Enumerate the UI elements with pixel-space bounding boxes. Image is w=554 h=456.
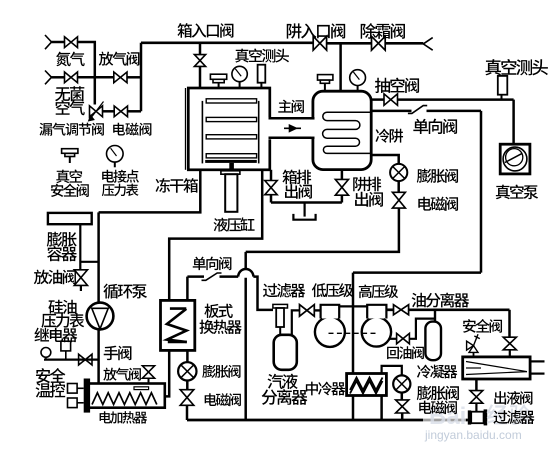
label 膨胀	[47, 232, 77, 247]
label 循环泵	[103, 284, 147, 299]
wire to solenoid	[397, 181, 400, 192]
label 漏气调节阀	[39, 123, 103, 136]
solenoid 电磁阀 (trap)	[392, 192, 405, 208]
expansion valve 膨胀阀 (mid)	[178, 362, 196, 380]
label 手阀	[104, 346, 132, 361]
label 回油阀	[387, 346, 424, 359]
wire box drain	[270, 170, 273, 203]
label 冷凝器	[417, 365, 457, 379]
label 过滤器	[493, 410, 534, 424]
check valve 单向阀 (mid)	[202, 273, 222, 280]
exchanger internals	[167, 309, 187, 342]
label 安全阀	[463, 319, 502, 333]
label 板式	[204, 304, 232, 318]
valve 箱排出阀	[265, 181, 277, 195]
valve suction stop	[300, 305, 315, 317]
sterile air inlet arrow	[45, 71, 52, 85]
vacuum probe right 真空测头	[498, 76, 508, 100]
shelf 4	[206, 154, 256, 158]
label 安全阀	[51, 184, 89, 197]
label 出阀	[355, 192, 383, 207]
wire air line	[52, 76, 65, 79]
label 箱入口阀	[177, 23, 233, 38]
duct lines into trap	[310, 118, 315, 138]
valve 回油阀	[397, 333, 410, 343]
valve 放气阀 (heater vent)	[142, 366, 154, 384]
wire riser x245.7	[244, 252, 247, 420]
LP compressor 低压级	[315, 304, 345, 347]
label 无菌	[55, 86, 84, 101]
intercooler zigzag	[350, 378, 383, 394]
label 除霜阀	[361, 23, 405, 39]
label 电接点	[102, 170, 139, 183]
oil separator 油分离器	[425, 322, 441, 361]
label 冻干箱	[156, 178, 198, 193]
wire vent valve to riser x141	[127, 76, 141, 79]
label 放气阀	[103, 368, 141, 381]
liquid filter 过滤器 (bottom right)	[468, 409, 487, 425]
wire main top line 箱入口-阱入口-除霜	[141, 41, 423, 44]
label 分离器	[262, 389, 308, 405]
label 冷阱	[375, 129, 403, 143]
main valve duct 主阀	[269, 118, 315, 138]
hydraulic cylinder flange	[221, 171, 240, 174]
label 继电器	[34, 328, 77, 343]
valve HP discharge	[394, 305, 409, 315]
label 真空泵	[496, 185, 538, 200]
label 单向阀	[193, 257, 232, 271]
label 主阀	[278, 100, 304, 113]
valve 阱排出阀	[335, 179, 348, 195]
valve 手阀	[79, 354, 92, 365]
outlet arrow (defrost line)	[423, 38, 432, 51]
wire to LP compressor	[314, 309, 320, 311]
condenser 冷凝器	[463, 357, 530, 379]
valve nitrogen shutoff	[65, 37, 78, 48]
wire trap coil outlet to expansion	[371, 155, 399, 164]
wire to mid solenoid	[186, 381, 189, 390]
vapor-liquid separator 汽液分离器	[274, 335, 297, 370]
electric heater 电加热器	[85, 384, 165, 408]
label 汽液	[268, 374, 298, 389]
label 换热器	[199, 320, 241, 334]
compressor dashed axis	[329, 332, 377, 334]
wire box return to exchanger	[169, 170, 262, 300]
label 膨胀阀	[417, 386, 459, 401]
label 放油阀	[34, 270, 76, 285]
wire to bottom header	[186, 405, 189, 420]
box pressure gauge	[232, 66, 247, 88]
svg-text:jingyan.baidu.com: jingyan.baidu.com	[424, 428, 522, 442]
wire air to vent valve	[78, 76, 114, 79]
wire separator outlet	[292, 310, 300, 334]
label 电磁阀	[113, 123, 151, 136]
wire riser x141	[140, 43, 143, 112]
wire riser x353 (intercooler left)	[352, 273, 355, 420]
watermark blob	[423, 399, 466, 425]
expansion valve 膨胀阀 (right)	[393, 375, 410, 392]
wire discharge down to condenser	[508, 310, 511, 337]
valve 抽空阀	[384, 94, 398, 105]
trap duct opening white-out	[311, 118, 317, 139]
expansion valve 膨胀阀 (trap)	[390, 164, 407, 181]
wire right down-leg x481	[480, 111, 483, 273]
label 真空	[56, 169, 82, 183]
safety thermostat sensors 安全温控	[68, 384, 84, 408]
box vacuum probe 真空测头	[258, 65, 266, 88]
label 箱排	[282, 170, 311, 185]
wire LP to HP top line	[339, 305, 367, 307]
label 压力表	[102, 184, 139, 197]
wire intercooler right leg	[382, 366, 402, 420]
plate heat exchanger 板式换热器	[161, 300, 195, 350]
solenoid 电磁阀 (mid)	[180, 390, 194, 406]
label 电磁阀	[419, 401, 457, 415]
wire drop to 箱入口阀	[199, 43, 202, 88]
check valve 单向阀 (top)	[408, 106, 427, 114]
valve 箱入口阀 (hourglass)	[194, 55, 205, 67]
wire box supply line (pump to box)	[99, 170, 201, 212]
label 温控	[36, 383, 66, 398]
condenser right stubs	[530, 361, 544, 373]
electric-contact pressure gauge symbol (legend)	[107, 146, 124, 168]
trap relief mushroom	[318, 75, 333, 92]
label 油分离器	[412, 293, 470, 308]
valve sterile air shutoff	[65, 72, 78, 83]
wire pump column	[97, 212, 100, 383]
heater left flange	[84, 379, 90, 413]
wire hand-valve branch	[44, 359, 99, 361]
label 压力表	[41, 313, 84, 328]
freeze dryer chamber 冻干箱	[186, 88, 270, 170]
vacuum safety valve symbol (legend)	[62, 149, 78, 163]
relay gauge circle symbol	[41, 348, 51, 360]
wire trap to 抽空阀	[371, 98, 513, 101]
wire down to vacuum pump	[512, 100, 515, 145]
vacuum pump 真空泵	[500, 144, 530, 174]
wire oil return	[390, 319, 436, 339]
valve 放油阀	[74, 270, 87, 291]
valve 出液阀	[470, 391, 483, 412]
valve condenser inlet	[503, 337, 516, 357]
label 真空测头	[235, 49, 289, 63]
wire leak valve to solenoid	[103, 110, 115, 113]
cold trap 冷阱 vessel	[313, 91, 371, 169]
label 电磁阀	[418, 197, 458, 211]
shelf 3	[206, 135, 256, 139]
wire nitrogen to riser	[78, 42, 95, 105]
wire to right solenoid	[401, 393, 404, 400]
wire trap check line	[371, 110, 481, 113]
flow arrow in duct	[284, 125, 301, 131]
label 过滤器	[263, 283, 305, 297]
valve 放气阀 (vent)	[114, 72, 127, 83]
label 出液阀	[494, 391, 532, 405]
wire vessel stem + tee	[80, 224, 98, 270]
label 真空测头	[485, 59, 547, 75]
press bottom plate	[205, 160, 257, 163]
valve 阱入口阀	[313, 36, 326, 50]
label 中冷器	[306, 382, 345, 396]
wire exchanger liquid feed	[186, 350, 189, 362]
valve 除霜阀	[372, 36, 386, 50]
wire y272.6 cross line	[353, 271, 481, 274]
valve 漏气调节阀 (leak regulating)	[89, 102, 104, 121]
label 容器	[47, 246, 77, 261]
wire trap drain	[341, 170, 344, 203]
wire exchanger refrigerant suction	[187, 269, 273, 310]
label 放气阀	[99, 52, 140, 66]
label 液压缸	[214, 217, 255, 231]
shelf rails	[202, 101, 258, 163]
valve 电磁阀 (gas inlet solenoid)	[114, 106, 127, 117]
hydraulic cylinder 液压缸	[225, 174, 237, 212]
label 空气	[56, 100, 85, 115]
label 低压级	[312, 283, 353, 297]
wire drop to cold trap	[339, 43, 342, 91]
expansion vessel 膨胀容器	[48, 213, 92, 224]
intercooler 中冷器	[347, 374, 387, 396]
shelf 1	[206, 99, 256, 103]
circulation pump 循环泵	[87, 303, 114, 330]
box vacuum relief (mushroom)	[210, 74, 226, 88]
suction filter 过滤器	[273, 304, 288, 334]
solenoid 电磁阀 (right)	[396, 400, 409, 413]
label 膨胀阀	[417, 169, 458, 183]
label 高压级	[359, 285, 398, 299]
label 单向阀	[413, 119, 457, 134]
duct opening white-outs	[267, 117, 317, 139]
label 氮气	[56, 52, 85, 67]
label 抽空阀	[375, 78, 419, 93]
nitrogen inlet arrow	[45, 35, 52, 49]
wire heater to exchanger	[165, 350, 169, 396]
label 电加热器	[100, 411, 148, 424]
wire stub to oil separator	[434, 310, 436, 322]
trap pressure gauge	[350, 70, 366, 92]
heater sight slot	[134, 387, 149, 390]
label 阱排	[353, 177, 381, 192]
safety valve 安全阀	[467, 334, 480, 357]
wire solenoid to header	[401, 413, 404, 420]
wire down and left to riser	[246, 208, 399, 252]
wire nitrogen line	[52, 41, 65, 44]
label 硅油	[48, 300, 76, 314]
label 膨胀阀	[202, 365, 240, 378]
condenser internals	[466, 362, 527, 375]
label 出阀	[285, 184, 312, 199]
HP compressor 高压级	[362, 304, 391, 347]
heater element zigzag	[92, 393, 157, 405]
drain funnel	[293, 203, 315, 220]
label 安全	[36, 368, 65, 383]
wire solenoid to riser	[128, 110, 142, 113]
relay contact square symbol	[61, 341, 71, 359]
shelf 2	[206, 117, 256, 121]
trap coil	[323, 112, 370, 153]
bottom liquid header	[187, 419, 468, 422]
label 电磁阀	[205, 393, 241, 406]
piston rod	[229, 163, 234, 171]
wire condenser outlet	[475, 379, 478, 391]
wire discharge line	[386, 308, 509, 311]
label 阱入口阀	[287, 23, 345, 38]
wire drain header	[271, 201, 342, 204]
